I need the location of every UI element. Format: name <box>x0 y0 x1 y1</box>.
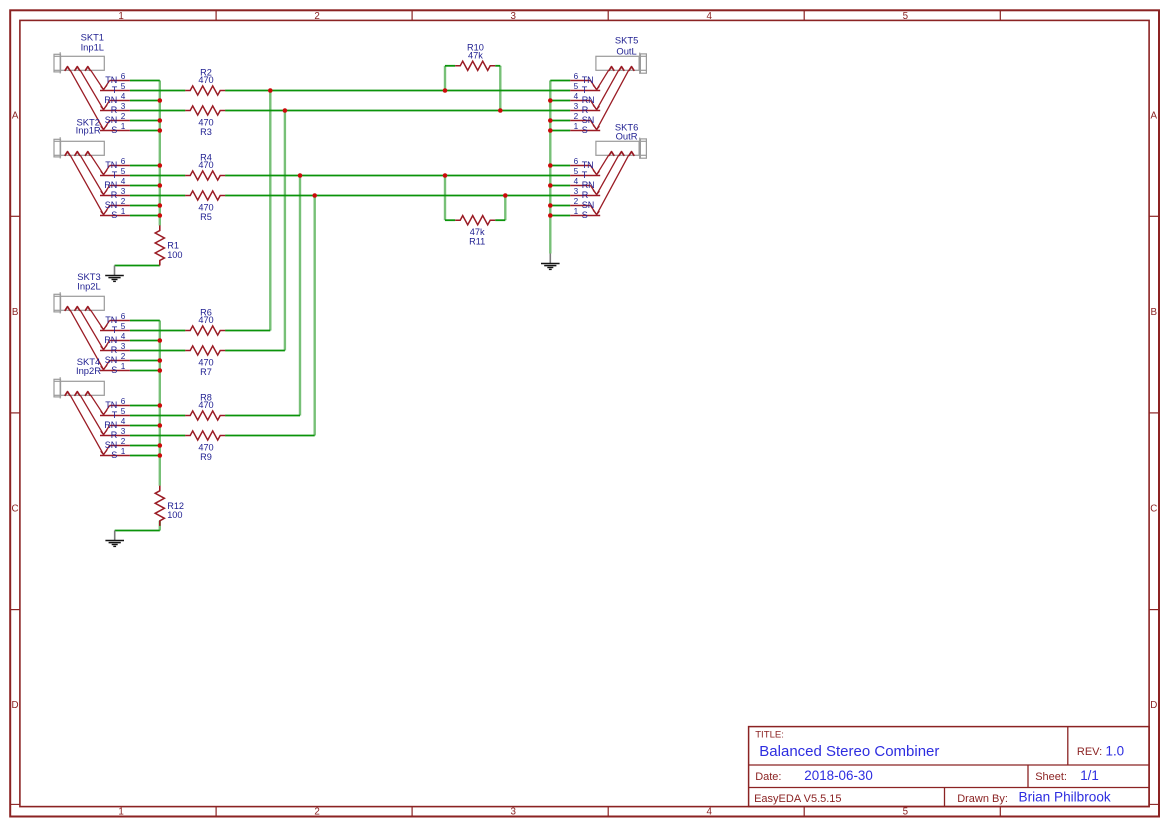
svg-text:5: 5 <box>574 167 579 176</box>
R5 name and value labels <box>198 202 213 222</box>
junction input bus 2 y=455.5 <box>158 453 163 458</box>
wire R11 right leg <box>504 196 506 221</box>
SKT4 pin 5 (T) <box>100 407 130 420</box>
svg-text:1: 1 <box>118 11 123 22</box>
SKT1 contact arrows and switch diagonals <box>65 67 104 130</box>
junction OutR-T riser <box>298 173 303 178</box>
SKT2 pin 4 (RN) <box>104 177 130 195</box>
wire right bus to SKT5/6 pin row y=165.5 <box>550 165 570 167</box>
junction input bus 2 y=370.5 <box>158 368 163 373</box>
svg-text:S: S <box>111 125 117 135</box>
SKT4 pin 4 (RN) <box>104 417 130 435</box>
wire right bus to SKT5/6 pin row y=185.5 <box>550 185 570 187</box>
svg-text:5: 5 <box>574 82 579 91</box>
wire SKT2 RN to bus <box>130 185 160 187</box>
connector SKT2 (Inp1R) stereo jack symbol <box>54 117 130 220</box>
resistor R5 (470) <box>185 191 225 222</box>
junction output bus y=130.5 <box>548 128 553 133</box>
wire right bus to SKT5/6 pin row y=100.5 <box>550 100 570 102</box>
column labels <box>118 11 908 818</box>
svg-text:SN: SN <box>105 440 118 450</box>
svg-text:1: 1 <box>574 122 579 131</box>
svg-text:R: R <box>582 105 589 115</box>
svg-text:RN: RN <box>104 335 117 345</box>
SKT5 reference/value labels <box>615 34 638 56</box>
svg-text:4: 4 <box>574 92 579 101</box>
wire input bus 1 (SKT1/SKT2 shields) <box>159 81 161 226</box>
SKT4 jack body outline <box>54 377 104 398</box>
junction input bus 1 y=130.5 <box>158 128 163 133</box>
svg-text:100: 100 <box>167 250 182 260</box>
svg-text:5: 5 <box>121 82 126 91</box>
svg-text:3: 3 <box>121 427 126 436</box>
svg-text:2: 2 <box>314 807 319 818</box>
svg-text:TN: TN <box>105 400 117 410</box>
wire R11 left stub <box>445 219 455 221</box>
SKT2 jack body outline <box>54 137 104 158</box>
svg-text:2: 2 <box>314 11 319 22</box>
wire SKT4 R to R9 <box>130 435 185 437</box>
svg-text:D: D <box>12 700 19 711</box>
wire R7 out to riser <box>225 350 285 352</box>
svg-text:SN: SN <box>582 115 595 125</box>
junction input bus 1 y=120.5 <box>158 118 163 123</box>
wire R12 to GND2 <box>115 530 160 532</box>
svg-text:D: D <box>1150 700 1157 711</box>
svg-text:SKT5: SKT5 <box>615 34 638 45</box>
SKT3 pin 3 (R) <box>100 342 130 355</box>
wire SKT1 RN to bus <box>130 100 160 102</box>
svg-text:TITLE:: TITLE: <box>755 729 784 740</box>
R12 name and value labels <box>167 501 184 520</box>
svg-text:2: 2 <box>574 112 579 121</box>
SKT1 reference/value labels <box>81 32 104 53</box>
ground GND1 (input bus 1) <box>105 266 124 282</box>
svg-text:Drawn By:: Drawn By: <box>957 793 1008 805</box>
SKT4 reference/value labels <box>76 356 101 376</box>
SKT1 pin 2 (SN) <box>104 112 130 130</box>
wire SKT1 SN to bus <box>130 120 160 122</box>
svg-text:470: 470 <box>198 117 213 127</box>
svg-text:4: 4 <box>121 92 126 101</box>
wire right bus to SKT5/6 pin row y=215.5 <box>550 215 570 217</box>
svg-text:3: 3 <box>574 102 579 111</box>
svg-text:470: 470 <box>198 357 213 367</box>
SKT2 contact arrows and switch diagonals <box>65 152 104 215</box>
resistor R12 (100) <box>155 486 184 526</box>
SKT3 pin 4 (RN) <box>104 332 130 350</box>
svg-text:C: C <box>12 504 19 515</box>
svg-text:T: T <box>112 325 118 335</box>
wire SKT3 SN to bus <box>130 360 160 362</box>
svg-text:5: 5 <box>121 407 126 416</box>
SKT2 reference/value labels <box>76 117 101 136</box>
SKT1 jack body outline <box>54 52 104 73</box>
svg-text:1/1: 1/1 <box>1080 768 1099 783</box>
svg-text:B: B <box>1151 307 1158 318</box>
svg-text:47k: 47k <box>468 50 483 60</box>
SKT3 pin 2 (SN) <box>104 352 130 370</box>
junction R10 left <box>443 88 448 93</box>
svg-text:TN: TN <box>105 160 117 170</box>
connector SKT1 (Inp1L) stereo jack symbol <box>54 32 130 135</box>
svg-text:Sheet:: Sheet: <box>1035 771 1067 783</box>
svg-text:4: 4 <box>121 417 126 426</box>
svg-text:5: 5 <box>121 167 126 176</box>
wire SKT4 T to R8 <box>130 415 185 417</box>
SKT5 pin 3 (R) <box>570 102 600 115</box>
SKT1 pin 4 (RN) <box>104 92 130 110</box>
svg-text:1: 1 <box>574 207 579 216</box>
svg-text:Brian Philbrook: Brian Philbrook <box>1019 790 1111 805</box>
svg-text:SN: SN <box>582 200 595 210</box>
SKT1 pin 5 (T) <box>100 82 130 95</box>
wire input bus 2 (SKT3/SKT4 shields) <box>159 321 161 486</box>
svg-text:RN: RN <box>104 420 117 430</box>
resistor R8 (470) <box>185 392 225 420</box>
svg-text:C: C <box>1150 504 1157 515</box>
connector SKT6 (OutR) stereo jack symbol (mirrored) <box>570 121 646 220</box>
junction output bus y=120.5 <box>548 118 553 123</box>
SKT6 pin 5 (T) <box>570 167 600 180</box>
svg-text:470: 470 <box>198 442 213 452</box>
svg-text:470: 470 <box>198 75 213 85</box>
junction input bus 2 y=340.5 <box>158 338 163 343</box>
svg-text:4: 4 <box>121 177 126 186</box>
R8 name and value labels <box>198 392 213 410</box>
SKT5 pin 1 (S) <box>570 122 600 135</box>
svg-text:5: 5 <box>121 322 126 331</box>
SKT3 jack body outline <box>54 292 104 313</box>
svg-text:6: 6 <box>574 72 579 81</box>
SKT4 pin 6 (TN) <box>104 397 130 415</box>
svg-text:Date:: Date: <box>755 771 781 783</box>
svg-text:SN: SN <box>105 355 118 365</box>
wire R10 left leg <box>444 66 446 91</box>
wire SKT2 SN to bus <box>130 205 160 207</box>
wire SKT3 T to R6 <box>130 330 185 332</box>
svg-text:2: 2 <box>121 197 126 206</box>
svg-text:R: R <box>111 190 118 200</box>
svg-text:6: 6 <box>121 312 126 321</box>
wire R2 out to SKT5 T (net OutL-T) <box>225 90 570 92</box>
wire right bus to SKT5/6 pin row y=120.5 <box>550 120 570 122</box>
SKT3 pin 6 (TN) <box>104 312 130 330</box>
resistor R10 (47k) <box>455 43 495 71</box>
svg-text:TN: TN <box>582 75 594 85</box>
connector SKT5 (OutL) stereo jack symbol (mirrored) <box>570 34 646 135</box>
ground GND3 (output bus) <box>541 254 560 270</box>
wire SKT4 S to bus <box>130 455 160 457</box>
svg-text:A: A <box>12 110 19 121</box>
wire riser R9-out to OutR-R <box>314 196 316 436</box>
resistor R1 (100) <box>155 226 182 266</box>
wire R8 out to riser <box>225 415 300 417</box>
R4 name and value labels <box>198 152 213 170</box>
junction OutR-R riser <box>312 193 317 198</box>
wire riser R8-out to OutR-T <box>299 176 301 416</box>
ground GND2 (input bus 2) <box>105 531 124 547</box>
SKT2 pin 5 (T) <box>100 167 130 180</box>
R10 name and value labels <box>467 43 484 61</box>
wire R9 out to riser <box>225 435 315 437</box>
wire right bus to SKT5/6 pin row y=80.5 <box>550 80 570 82</box>
wire SKT1 R to R3 <box>130 110 185 112</box>
resistor R2 (470) <box>185 67 225 95</box>
junction input bus 2 y=405.5 <box>158 403 163 408</box>
SKT5 pin 5 (T) <box>570 82 600 95</box>
resistor R4 (470) <box>185 152 225 180</box>
resistor R9 (470) <box>185 431 225 462</box>
SKT3 reference/value labels <box>77 271 100 292</box>
svg-text:T: T <box>112 170 118 180</box>
wire riser R6-out to OutL-T <box>269 91 271 331</box>
SKT4 pin 1 (S) <box>100 447 130 460</box>
SKT5 pin 4 (RN) <box>570 92 596 110</box>
svg-text:B: B <box>12 307 19 318</box>
R1 name and value labels <box>167 241 182 260</box>
svg-text:1: 1 <box>121 122 126 131</box>
svg-text:3: 3 <box>574 187 579 196</box>
title block <box>749 727 1150 807</box>
svg-text:SN: SN <box>105 115 118 125</box>
junction input bus 2 y=360.5 <box>158 358 163 363</box>
svg-text:5: 5 <box>903 807 909 818</box>
svg-text:6: 6 <box>121 72 126 81</box>
R2 name and value labels <box>198 67 213 85</box>
junction R11 right <box>503 193 508 198</box>
svg-text:TN: TN <box>582 160 594 170</box>
wire R5 out to SKT6 R (net OutR-R) <box>225 195 570 197</box>
svg-text:R3: R3 <box>200 127 212 137</box>
svg-text:6: 6 <box>121 157 126 166</box>
svg-text:Balanced Stereo Combiner: Balanced Stereo Combiner <box>759 743 939 760</box>
junction input bus 1 y=165.5 <box>158 163 163 168</box>
wire SKT2 pin6 to bus <box>130 165 160 167</box>
resistor R3 (470) <box>185 106 225 137</box>
wire R11 left leg <box>444 176 446 221</box>
SKT1 pin 3 (R) <box>100 102 130 115</box>
svg-text:6: 6 <box>574 157 579 166</box>
svg-text:3: 3 <box>121 187 126 196</box>
svg-text:Inp1L: Inp1L <box>81 41 104 52</box>
SKT2 pin 6 (TN) <box>104 157 130 175</box>
SKT6 reference/value labels <box>615 121 638 141</box>
wire output bus (SKT5/SKT6 shields) <box>549 81 551 254</box>
svg-text:R: R <box>111 105 118 115</box>
wire SKT2 R to R5 <box>130 195 185 197</box>
wire SKT1 pin6 to bus <box>130 80 160 82</box>
svg-text:R11: R11 <box>469 237 485 247</box>
wire R4 out to SKT6 T (net OutR-T) <box>225 175 570 177</box>
SKT3 pin 5 (T) <box>100 322 130 335</box>
SKT5 pin 2 (SN) <box>570 112 596 130</box>
resistor R11 (47k) <box>455 216 495 247</box>
wire SKT1 T to R2 <box>130 90 185 92</box>
wire R10 right stub <box>495 65 500 67</box>
svg-text:RN: RN <box>104 180 117 190</box>
svg-text:Inp1R: Inp1R <box>76 125 101 136</box>
junction output bus y=100.5 <box>548 98 553 103</box>
junction input bus 1 y=100.5 <box>158 98 163 103</box>
wire SKT4 pin6 to bus <box>130 405 160 407</box>
svg-text:470: 470 <box>198 315 213 325</box>
svg-text:1: 1 <box>121 362 126 371</box>
svg-text:S: S <box>582 210 588 220</box>
junction input bus 1 y=205.5 <box>158 203 163 208</box>
SKT1 pin 1 (S) <box>100 122 130 135</box>
junction R11 left <box>443 173 448 178</box>
svg-text:3: 3 <box>121 102 126 111</box>
svg-text:2: 2 <box>121 112 126 121</box>
SKT6 pin 6 (TN) <box>570 157 596 175</box>
junction input bus 1 y=215.5 <box>158 213 163 218</box>
svg-text:6: 6 <box>121 397 126 406</box>
svg-text:4: 4 <box>707 807 713 818</box>
wire SKT4 SN to bus <box>130 445 160 447</box>
R9 name and value labels <box>198 442 213 462</box>
wire right bus to SKT5/6 pin row y=205.5 <box>550 205 570 207</box>
svg-text:T: T <box>112 410 118 420</box>
svg-text:T: T <box>582 170 588 180</box>
wire SKT3 S to bus <box>130 370 160 372</box>
svg-text:T: T <box>112 85 118 95</box>
junction output bus y=165.5 <box>548 163 553 168</box>
svg-text:470: 470 <box>198 202 213 212</box>
junction output bus y=215.5 <box>548 213 553 218</box>
svg-text:RN: RN <box>582 180 595 190</box>
junction input bus 1 y=185.5 <box>158 183 163 188</box>
wire right bus to SKT5/6 pin row y=130.5 <box>550 130 570 132</box>
wire R11 right stub <box>495 219 505 221</box>
svg-text:Inp2L: Inp2L <box>77 281 100 292</box>
junction R10 right <box>498 108 503 113</box>
svg-text:EasyEDA V5.5.15: EasyEDA V5.5.15 <box>754 793 841 805</box>
svg-text:4: 4 <box>707 11 713 22</box>
junction output bus y=205.5 <box>548 203 553 208</box>
SKT6 pin 3 (R) <box>570 187 600 200</box>
SKT5 pin 6 (TN) <box>570 72 596 90</box>
wire R12 bottom to GND wire <box>159 521 161 531</box>
connector SKT4 (Inp2R) stereo jack symbol <box>54 356 130 460</box>
SKT6 pin 1 (S) <box>570 207 600 220</box>
svg-text:REV:: REV: <box>1077 746 1102 758</box>
svg-text:1: 1 <box>118 807 123 818</box>
wire R6 out to riser <box>225 330 270 332</box>
svg-text:R: R <box>111 430 118 440</box>
svg-text:RN: RN <box>582 95 595 105</box>
svg-text:100: 100 <box>167 510 182 520</box>
svg-text:1: 1 <box>121 447 126 456</box>
SKT5 jack body outline <box>596 53 647 74</box>
wire SKT4 RN to bus <box>130 425 160 427</box>
SKT4 pin 2 (SN) <box>104 437 130 455</box>
wire SKT2 S to bus <box>130 215 160 217</box>
wire R3 out to SKT5 R (net OutL-R) <box>225 110 570 112</box>
junction output bus y=185.5 <box>548 183 553 188</box>
SKT5 contact arrows and switch diagonals <box>597 67 634 130</box>
row ticks left/right <box>10 216 1159 609</box>
wire SKT3 RN to bus <box>130 340 160 342</box>
SKT2 pin 3 (R) <box>100 187 130 200</box>
wire riser R7-out to OutL-R <box>284 111 286 351</box>
margin caps bottom <box>10 803 20 805</box>
svg-text:3: 3 <box>511 807 517 818</box>
resistor R7 (470) <box>185 346 225 377</box>
svg-text:R7: R7 <box>200 367 212 377</box>
SKT1 pin 6 (TN) <box>104 72 130 90</box>
SKT4 pin 3 (R) <box>100 427 130 440</box>
svg-text:1: 1 <box>121 207 126 216</box>
wire SKT3 pin6 to bus <box>130 320 160 322</box>
svg-text:4: 4 <box>574 177 579 186</box>
svg-text:47k: 47k <box>470 227 485 237</box>
svg-text:470: 470 <box>198 160 213 170</box>
wire R1 to GND1 <box>115 265 160 267</box>
svg-text:R5: R5 <box>200 212 212 222</box>
R6 name and value labels <box>198 307 213 325</box>
svg-text:OutR: OutR <box>616 131 638 142</box>
junction OutL-T riser <box>268 88 273 93</box>
svg-text:5: 5 <box>903 11 909 22</box>
wire SKT3 R to R7 <box>130 350 185 352</box>
svg-text:R9: R9 <box>200 452 212 462</box>
resistor R6 (470) <box>185 307 225 335</box>
SKT3 contact arrows and switch diagonals <box>65 307 104 370</box>
R7 name and value labels <box>198 357 213 377</box>
svg-text:2: 2 <box>574 197 579 206</box>
svg-text:1.0: 1.0 <box>1106 743 1125 758</box>
svg-text:2: 2 <box>121 352 126 361</box>
junction input bus 2 y=425.5 <box>158 423 163 428</box>
svg-text:R: R <box>111 345 118 355</box>
resistor R12 lead <box>159 486 161 491</box>
svg-text:S: S <box>111 210 117 220</box>
wire R10 right leg <box>499 66 501 111</box>
SKT6 pin 2 (SN) <box>570 197 596 215</box>
SKT3 pin 1 (S) <box>100 362 130 375</box>
svg-text:T: T <box>582 85 588 95</box>
svg-text:2018-06-30: 2018-06-30 <box>804 768 873 783</box>
SKT2 pin 2 (SN) <box>104 197 130 215</box>
svg-text:S: S <box>111 365 117 375</box>
svg-text:Inp2R: Inp2R <box>76 365 101 376</box>
resistor R1 lead <box>159 225 161 230</box>
SKT6 contact arrows and switch diagonals <box>597 152 634 215</box>
svg-text:3: 3 <box>511 11 517 22</box>
svg-text:SN: SN <box>105 200 118 210</box>
R3 name and value labels <box>198 117 213 137</box>
SKT6 jack body outline <box>596 138 647 159</box>
svg-text:S: S <box>111 450 117 460</box>
column ticks top/bottom <box>216 10 1000 816</box>
svg-text:A: A <box>1151 110 1158 121</box>
connector SKT3 (Inp2L) stereo jack symbol <box>54 271 130 375</box>
junction OutL-R riser <box>283 108 288 113</box>
R11 name and value labels <box>469 227 485 247</box>
svg-text:OutL: OutL <box>616 45 636 56</box>
junction input bus 2 y=445.5 <box>158 443 163 448</box>
svg-text:TN: TN <box>105 75 117 85</box>
SKT6 pin 4 (RN) <box>570 177 596 195</box>
svg-text:2: 2 <box>121 437 126 446</box>
row labels <box>12 110 1158 711</box>
svg-text:TN: TN <box>105 315 117 325</box>
svg-text:R: R <box>582 190 589 200</box>
SKT4 contact arrows and switch diagonals <box>65 392 104 455</box>
svg-text:470: 470 <box>198 400 213 410</box>
svg-text:3: 3 <box>121 342 126 351</box>
